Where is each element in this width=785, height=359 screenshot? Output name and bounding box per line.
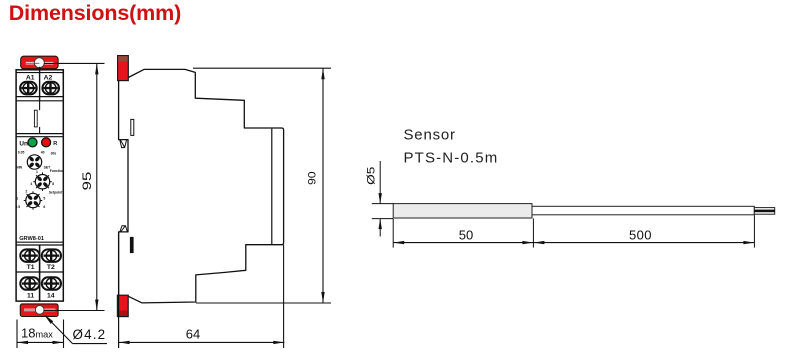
- top DIN clip (side, red): [118, 56, 129, 81]
- front body outline: [16, 70, 63, 301]
- terminal screw T2: [42, 249, 61, 262]
- svg-text:500: 500: [629, 228, 652, 243]
- top DIN clip (front, red): [21, 56, 58, 68]
- dimension Ø5 line with arrows: [379, 161, 382, 237]
- bottom DIN clip (side, red): [117, 295, 128, 316]
- svg-text:0.05: 0.05: [18, 151, 25, 155]
- svg-text:11: 11: [27, 293, 34, 300]
- svg-text:1: 1: [36, 170, 38, 174]
- svg-text:Setpoint: Setpoint: [49, 190, 63, 194]
- svg-text:Ø4.2: Ø4.2: [73, 327, 107, 342]
- dimension 95: dimension line with arrows: [95, 63, 98, 310]
- svg-text:4: 4: [30, 182, 32, 186]
- svg-text:0.5: 0.5: [15, 205, 20, 209]
- svg-text:8: 8: [52, 182, 54, 186]
- dimension 64 right extension line: [283, 245, 285, 348]
- svg-text:PTS-N-0.5m: PTS-N-0.5m: [404, 149, 499, 166]
- dimension 18max extension lines: [17, 320, 64, 349]
- dimension Ø5 extension lines: [372, 204, 393, 219]
- left face / 64 left extension line: [118, 232, 120, 348]
- terminal screw A2: [42, 82, 59, 95]
- svg-text:5: 5: [43, 196, 45, 200]
- leader Ø4.2: [44, 315, 107, 344]
- section divider lines below A1/A2: [16, 97, 63, 101]
- svg-text:GRW8-01: GRW8-01: [19, 236, 44, 242]
- green LED: [28, 138, 37, 147]
- dimension 18max line with arrows: [17, 341, 64, 344]
- svg-text:T1: T1: [27, 264, 35, 271]
- dimension 95: extension lines: [44, 63, 105, 310]
- bottom DIN clip (front, red): [20, 304, 58, 317]
- svg-text:2: 2: [25, 189, 27, 193]
- terminal screw T1: [20, 249, 39, 262]
- upper DIN latch (side): [120, 140, 127, 148]
- svg-text:14: 14: [47, 293, 55, 300]
- sensor cable: [532, 206, 754, 215]
- dimension 90 line with arrows: [321, 68, 324, 303]
- inner front panel line: [271, 129, 273, 245]
- dimension 50/500 extension lines: [393, 215, 754, 247]
- svg-text:Dimensions(mm): Dimensions(mm): [9, 1, 181, 25]
- centre line of front body: [39, 67, 41, 301]
- svg-text:90: 90: [306, 171, 318, 185]
- svg-text:A1: A1: [26, 74, 35, 81]
- sensor probe body: [393, 204, 532, 218]
- svg-text:64: 64: [186, 326, 200, 341]
- terminal screw 11: [20, 277, 39, 290]
- svg-text:Ø5: Ø5: [365, 167, 378, 185]
- lower DIN latch (side): [120, 226, 128, 232]
- svg-text:1: 1: [16, 196, 18, 200]
- dial 1 markings text: [16, 151, 56, 170]
- svg-text:6: 6: [43, 205, 45, 209]
- svg-text:95: 95: [81, 172, 94, 191]
- svg-text:50: 50: [459, 228, 473, 243]
- dimension 64 line with arrows: [119, 341, 285, 344]
- svg-text:40: 40: [41, 151, 45, 155]
- cable end pin: [754, 208, 774, 215]
- svg-text:R: R: [53, 141, 57, 147]
- middle slot: [34, 110, 37, 127]
- rotary dial 2: [33, 172, 52, 191]
- lower side slot (filled): [130, 237, 134, 253]
- upper side slot: [131, 119, 134, 135]
- terminal screw A1: [20, 82, 37, 95]
- section divider lines above LEDs: [16, 134, 63, 137]
- dial 3 markings text: [15, 189, 63, 209]
- side body outline: [119, 69, 284, 303]
- svg-text:T2: T2: [47, 264, 55, 271]
- dial 2 markings text: [30, 169, 64, 186]
- svg-text:30s: 30s: [51, 152, 57, 156]
- svg-text:MIN: MIN: [16, 166, 23, 170]
- rotary dial 3: [24, 191, 43, 210]
- dimension 90 extension lines: [193, 68, 331, 303]
- divider lines above T1/T2: [16, 242, 63, 245]
- rotary dial 1: [27, 155, 41, 169]
- svg-text:A2: A2: [44, 74, 53, 81]
- svg-text:Function: Function: [50, 169, 64, 173]
- red LED: [42, 138, 51, 147]
- divider line between T and 11/14: [16, 271, 63, 273]
- dimension 50 line with arrows: [393, 241, 533, 244]
- svg-text:Un: Un: [19, 140, 28, 147]
- terminal screw 14: [42, 277, 61, 290]
- dimension 500 line with arrows: [533, 241, 754, 244]
- svg-text:Sensor: Sensor: [404, 127, 456, 144]
